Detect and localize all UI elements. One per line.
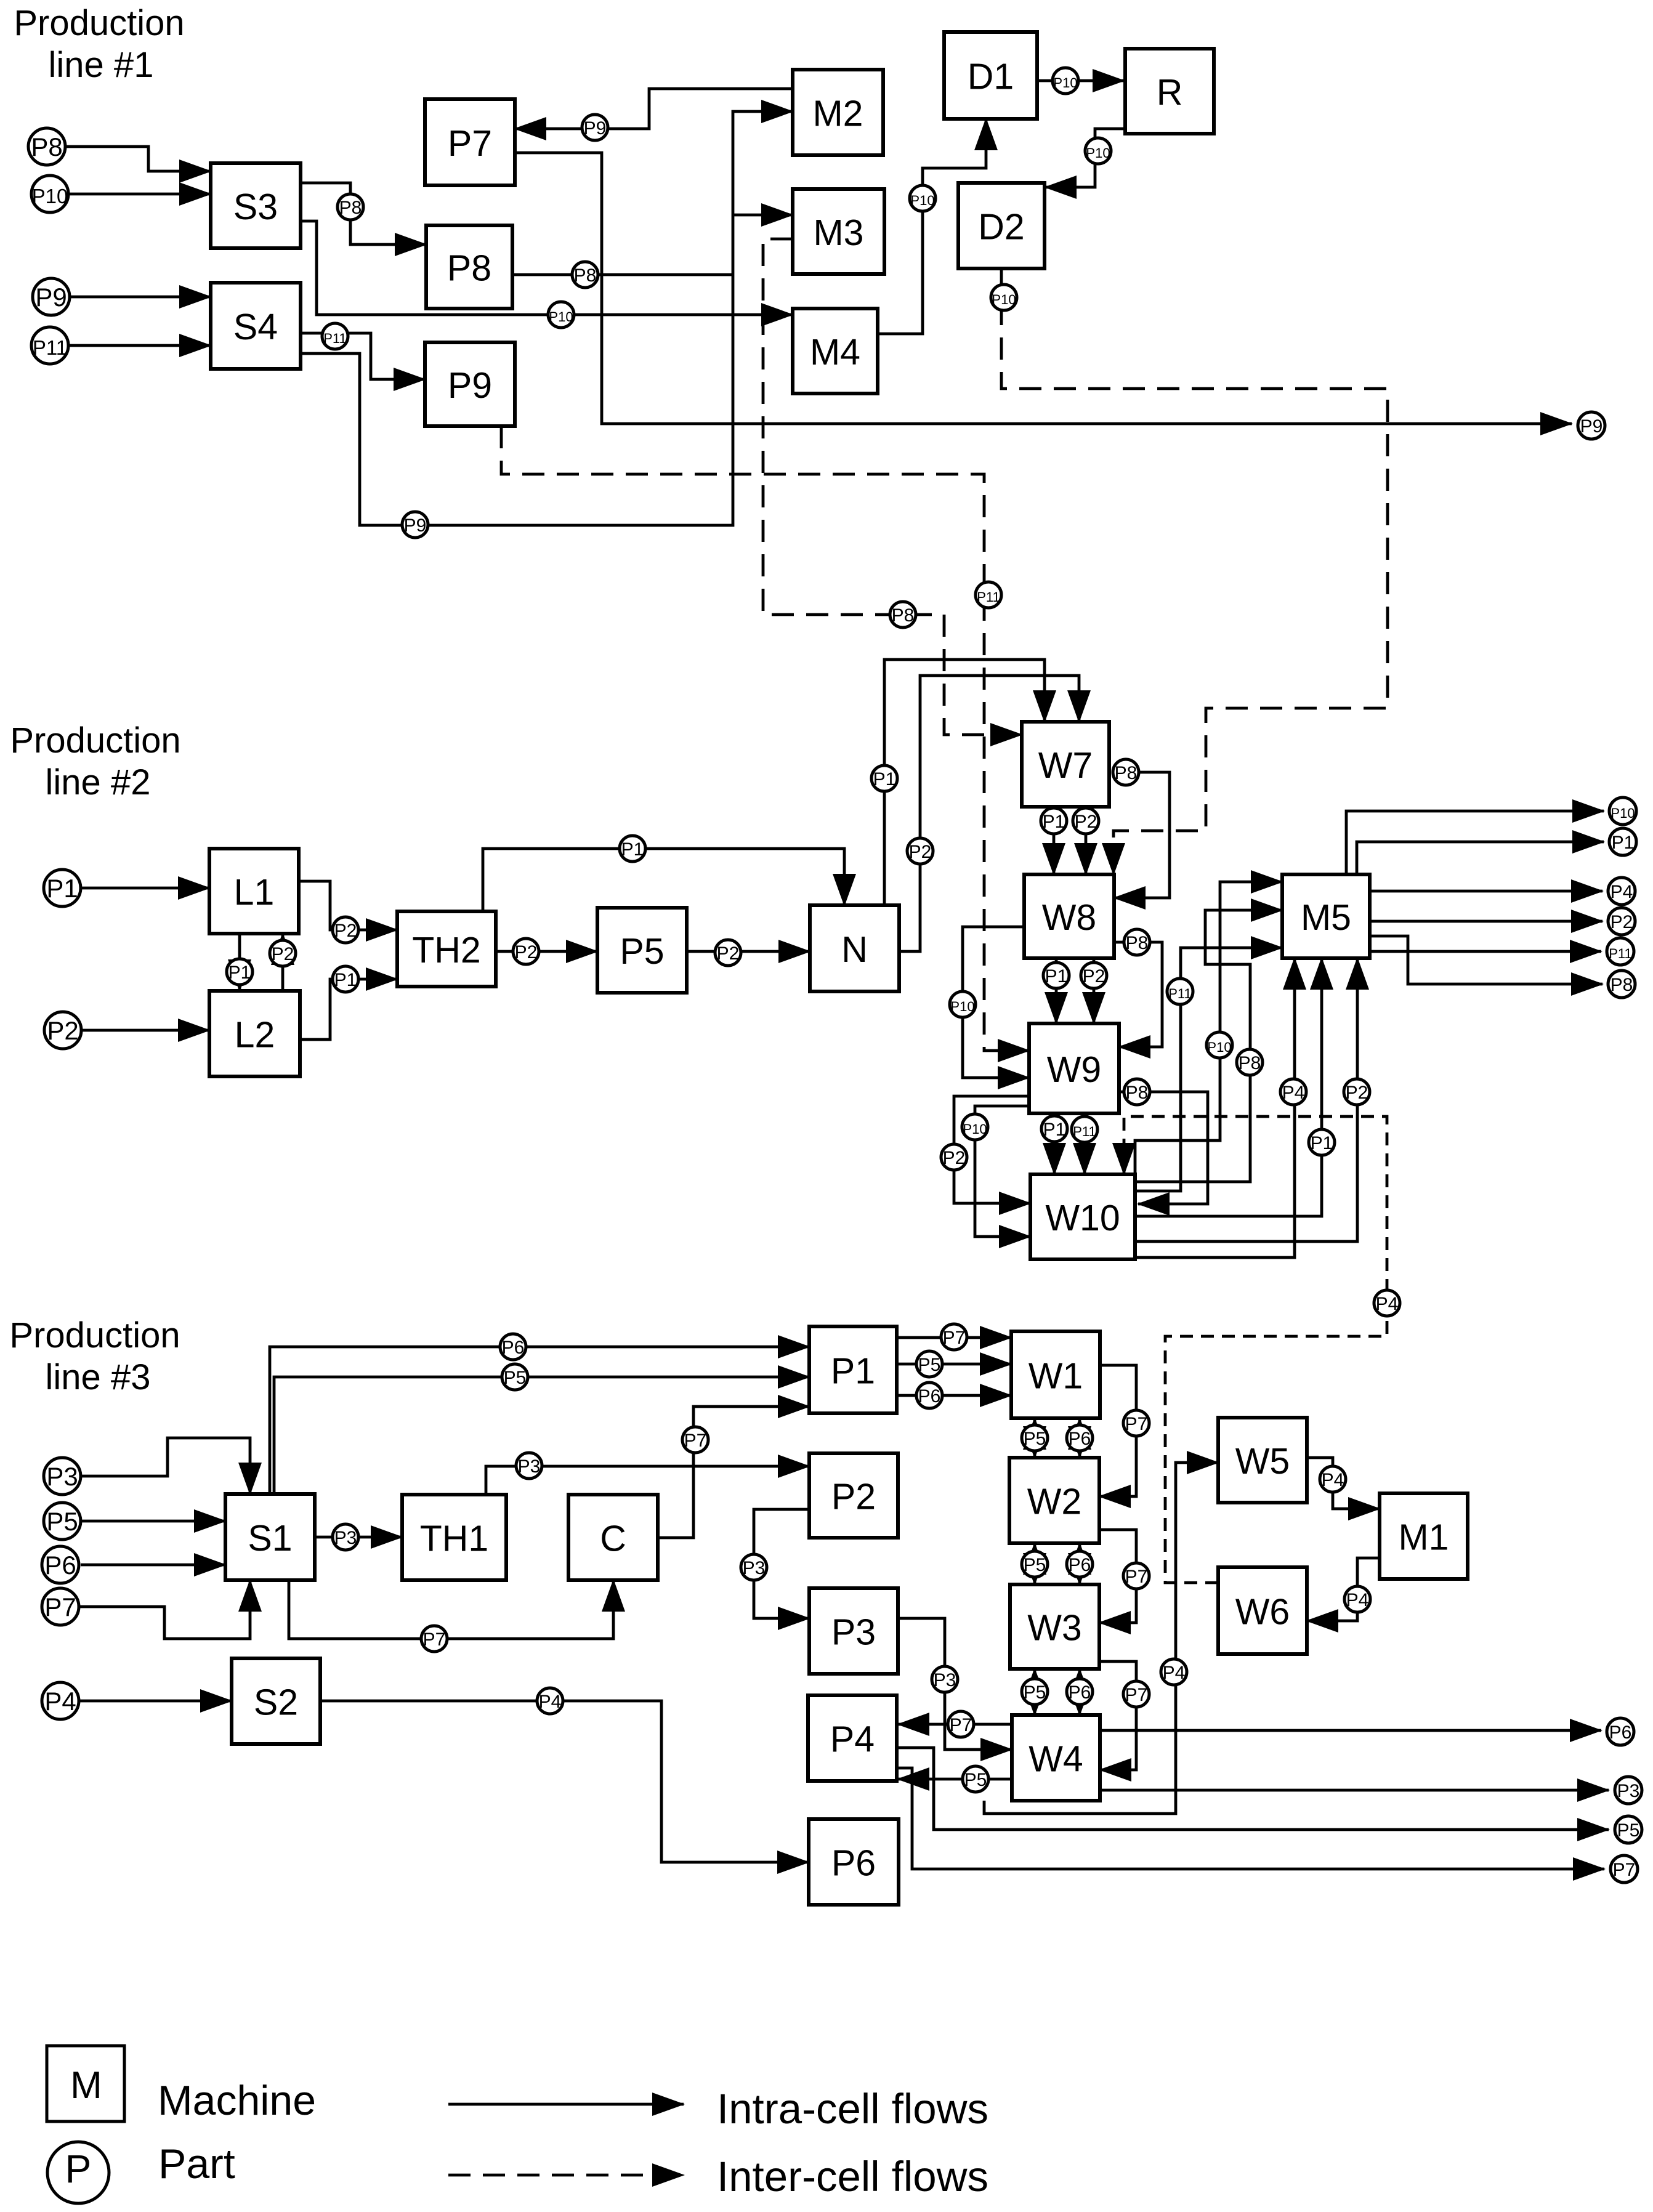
wire M1 to W6 P4 bbox=[1307, 1558, 1380, 1621]
svg-text:P4: P4 bbox=[1611, 882, 1633, 902]
wire M3 dashed to W7 P8 bbox=[763, 239, 1022, 735]
svg-text:P2: P2 bbox=[515, 942, 538, 963]
svg-text:W2: W2 bbox=[1027, 1482, 1082, 1522]
machine W3 (W3) bbox=[1010, 1584, 1099, 1669]
machine L1 (L1) bbox=[209, 849, 299, 934]
svg-text:Production: Production bbox=[9, 1315, 180, 1355]
part label P7 on wire bbox=[941, 1324, 967, 1350]
part label P4 on wire bbox=[1374, 1290, 1400, 1316]
wire W1-W2 pair P6 bbox=[1078, 1418, 1081, 1458]
wire W4 to P4 box P7 bbox=[898, 1723, 1012, 1726]
part input P1 bbox=[44, 870, 81, 906]
svg-text:P4: P4 bbox=[1322, 1470, 1344, 1490]
svg-text:P1: P1 bbox=[621, 839, 644, 860]
svg-text:W8: W8 bbox=[1042, 897, 1097, 938]
wire S1 to P1 box P5 bbox=[274, 1377, 809, 1494]
part label P7 on wire bbox=[1123, 1681, 1149, 1707]
part label P10 on wire bbox=[548, 302, 574, 328]
part input P4 bbox=[42, 1682, 79, 1719]
svg-text:P10: P10 bbox=[1611, 805, 1635, 821]
svg-text:Production: Production bbox=[14, 3, 184, 43]
wire P1 input to L1 bbox=[81, 887, 209, 890]
wire P6 input to S1 bbox=[81, 1564, 225, 1567]
machine P7 (P7box) bbox=[425, 99, 515, 185]
part label P4 on wire bbox=[1344, 1586, 1370, 1612]
svg-text:S3: S3 bbox=[233, 187, 278, 227]
part label P9 on wire bbox=[402, 512, 428, 538]
svg-text:P8: P8 bbox=[892, 605, 915, 626]
svg-text:P3: P3 bbox=[831, 1612, 876, 1653]
wire P9 input to S4 bbox=[70, 296, 211, 299]
part label P8 on wire bbox=[1113, 759, 1139, 785]
svg-text:P4: P4 bbox=[1376, 1294, 1399, 1314]
machine P3 (P3box) bbox=[809, 1588, 898, 1674]
wire P4 input to S2 bbox=[79, 1700, 232, 1703]
wire L1 to L2 P1 bbox=[238, 934, 241, 991]
wire R to D2 P10 bbox=[1045, 129, 1125, 187]
svg-text:P8: P8 bbox=[1126, 1083, 1149, 1103]
svg-text:P6: P6 bbox=[1609, 1722, 1632, 1743]
part output P3 bbox=[1615, 1777, 1642, 1804]
svg-text:P6: P6 bbox=[502, 1338, 525, 1358]
part output P1 bbox=[1609, 828, 1636, 855]
wire W4 to P6 output bbox=[1100, 1729, 1601, 1732]
wire W2-W3 pair P5 bbox=[1033, 1543, 1037, 1584]
machine L2 (L2) bbox=[209, 991, 300, 1076]
wire W10 to M5 in1 P10 bbox=[1135, 882, 1282, 1176]
part output P11 bbox=[1607, 938, 1634, 965]
svg-text:P1: P1 bbox=[1043, 1120, 1066, 1140]
machine S4 (S4) bbox=[211, 283, 301, 369]
wire W8 to W9 left loop P10 bbox=[963, 927, 1029, 1078]
svg-text:R: R bbox=[1157, 72, 1183, 113]
part label P7 on wire bbox=[682, 1427, 708, 1453]
svg-text:P6: P6 bbox=[44, 1551, 76, 1580]
wire P4 box to P5 output bbox=[897, 1748, 1609, 1830]
svg-text:P10: P10 bbox=[910, 193, 934, 208]
svg-text:P2: P2 bbox=[1346, 1083, 1368, 1103]
wire W9 to W10 P11 bbox=[1083, 1113, 1086, 1174]
part label P10 on wire bbox=[1085, 138, 1111, 164]
svg-text:P7: P7 bbox=[448, 123, 492, 164]
part label P6 on wire bbox=[1067, 1679, 1093, 1705]
wire P4 box to P7 output bbox=[897, 1768, 1604, 1869]
svg-text:P4: P4 bbox=[1163, 1663, 1186, 1683]
svg-text:P2: P2 bbox=[1083, 966, 1105, 987]
svg-text:TH2: TH2 bbox=[412, 930, 480, 971]
machine M2 (M2) bbox=[793, 70, 883, 155]
wire L2 to L1 P2 bbox=[281, 934, 285, 991]
svg-text:P2: P2 bbox=[334, 921, 357, 941]
wire P8 box junction line bbox=[512, 273, 733, 276]
machine C (C) bbox=[568, 1495, 658, 1580]
part label P7 on wire bbox=[1123, 1563, 1149, 1589]
part label P10 on wire bbox=[991, 285, 1017, 310]
svg-text:P5: P5 bbox=[1024, 1429, 1046, 1449]
part label P8 on wire bbox=[1124, 929, 1150, 955]
wire W6 dashed to W10 P4 bbox=[1124, 1116, 1387, 1583]
part label P2 on wire bbox=[1344, 1079, 1370, 1105]
wire P3 input to S1 top bbox=[81, 1438, 250, 1494]
svg-text:P1: P1 bbox=[873, 769, 896, 789]
svg-text:W9: W9 bbox=[1047, 1049, 1102, 1090]
svg-text:P8: P8 bbox=[1239, 1053, 1261, 1073]
svg-text:P11: P11 bbox=[33, 336, 67, 359]
svg-text:M1: M1 bbox=[1399, 1517, 1449, 1558]
wire W10 to M5 bottom P1 bbox=[1135, 958, 1322, 1216]
part label P3 on wire bbox=[741, 1554, 767, 1580]
svg-text:P11: P11 bbox=[323, 331, 347, 346]
part input P9 bbox=[33, 278, 70, 315]
svg-text:P8: P8 bbox=[1611, 975, 1633, 995]
svg-text:P6: P6 bbox=[1069, 1429, 1091, 1449]
wire W9 to W10 P1 bbox=[1053, 1113, 1056, 1174]
wire P1 box to W1 P7 bbox=[897, 1336, 1011, 1339]
part label P5 on wire bbox=[1022, 1679, 1048, 1705]
wire D1 to R P10 bbox=[1037, 79, 1124, 83]
svg-text:P4: P4 bbox=[1282, 1083, 1305, 1103]
part label P2 on wire bbox=[941, 1144, 967, 1170]
machine P6 (P6box) bbox=[809, 1819, 899, 1905]
part label P4 on wire bbox=[1320, 1466, 1346, 1492]
svg-text:P3: P3 bbox=[518, 1456, 541, 1477]
svg-text:P5: P5 bbox=[1617, 1820, 1640, 1841]
part input P8 bbox=[28, 128, 65, 165]
machine W9 (W9) bbox=[1029, 1023, 1119, 1113]
wire P5 input to S1 bbox=[81, 1520, 225, 1523]
wire W4 to P4 box P5 bbox=[898, 1778, 1012, 1781]
wire W8 to W9 P2 bbox=[1093, 958, 1096, 1023]
svg-text:M: M bbox=[70, 2064, 102, 2107]
svg-text:P11: P11 bbox=[1073, 1124, 1096, 1139]
svg-text:P2: P2 bbox=[1075, 812, 1097, 832]
svg-text:P1: P1 bbox=[1612, 833, 1635, 853]
svg-text:P5: P5 bbox=[620, 931, 664, 972]
machine W10 (W10) bbox=[1030, 1174, 1135, 1259]
wire N to W7 P1 bbox=[884, 660, 1045, 905]
part output P10 bbox=[1609, 797, 1636, 825]
wire P8 input to S3 bbox=[65, 147, 211, 171]
wire W9 to W10 left P10 bbox=[975, 1106, 1030, 1237]
wire W3-W4 pair P5 bbox=[1033, 1669, 1037, 1715]
machine W2 (W2) bbox=[1009, 1458, 1099, 1543]
svg-text:P4: P4 bbox=[830, 1719, 875, 1760]
part label P9 on wire bbox=[582, 115, 608, 140]
svg-text:P9: P9 bbox=[404, 515, 427, 536]
wire W10 to M5 in2 P8 bbox=[1135, 910, 1282, 1182]
part label P1 on wire bbox=[1043, 963, 1069, 988]
legend machine box M bbox=[47, 2046, 124, 2121]
svg-text:P8: P8 bbox=[1115, 763, 1138, 783]
svg-text:D1: D1 bbox=[968, 57, 1014, 97]
svg-text:P10: P10 bbox=[1053, 75, 1077, 91]
part label P8 on wire bbox=[890, 602, 916, 628]
wire M5 to P11 output bbox=[1370, 950, 1601, 953]
machine W5 (W5) bbox=[1218, 1418, 1307, 1503]
svg-text:C: C bbox=[600, 1519, 626, 1559]
part label P2 on wire bbox=[1073, 808, 1099, 834]
part label P5 on wire bbox=[502, 1364, 528, 1390]
part label P1 on wire bbox=[620, 836, 645, 862]
wire W9 to W10 right loop P8 bbox=[1119, 1092, 1208, 1204]
svg-text:P10: P10 bbox=[1086, 145, 1110, 161]
wire M5 to P8 output bbox=[1370, 936, 1602, 984]
svg-text:D2: D2 bbox=[978, 207, 1024, 248]
svg-text:line #3: line #3 bbox=[46, 1357, 151, 1397]
svg-text:TH1: TH1 bbox=[420, 1519, 488, 1559]
wire W10 to M5 in3 P11 bbox=[1135, 948, 1282, 1191]
machine D1 (D1) bbox=[944, 32, 1037, 119]
legend part circle P bbox=[47, 2142, 109, 2203]
part input P7 bbox=[42, 1588, 79, 1625]
wire W8 to W9 right loop P8 bbox=[1114, 942, 1162, 1047]
wire L2 to TH2 P1 bbox=[300, 979, 397, 1039]
part label P2 on wire bbox=[715, 940, 741, 966]
part label P10 on wire bbox=[1206, 1032, 1232, 1058]
svg-text:P10: P10 bbox=[549, 309, 573, 325]
legend intra-cell flow arrow bbox=[448, 2103, 684, 2106]
svg-text:N: N bbox=[841, 929, 868, 970]
svg-text:P2: P2 bbox=[1611, 912, 1633, 932]
svg-text:P9: P9 bbox=[35, 283, 67, 312]
svg-text:P7: P7 bbox=[44, 1592, 76, 1621]
part output P7 bbox=[1611, 1855, 1638, 1883]
part label P1 on wire bbox=[871, 765, 897, 791]
wire W10 to M5 bottom P4 bbox=[1135, 958, 1295, 1257]
svg-text:P10: P10 bbox=[963, 1121, 987, 1137]
wire W5 to M1 P4 bbox=[1307, 1458, 1380, 1509]
part label P7 on wire bbox=[421, 1626, 447, 1652]
svg-text:P: P bbox=[65, 2147, 92, 2191]
machine TH1 (TH1) bbox=[402, 1495, 506, 1580]
machine S3 (S3) bbox=[211, 163, 301, 248]
part label P6 on wire bbox=[1067, 1425, 1093, 1451]
part label P5 on wire bbox=[1022, 1425, 1048, 1451]
wire TH2 to N top P1 bbox=[483, 849, 844, 911]
svg-text:P6: P6 bbox=[831, 1843, 876, 1884]
part label P11 on wire bbox=[1072, 1116, 1097, 1142]
wire P2 box to P3 box P3 bbox=[754, 1509, 809, 1618]
part label P1 on wire bbox=[1309, 1129, 1335, 1155]
part label P7 on wire bbox=[1123, 1410, 1149, 1436]
wire TH2 to P5 P2 bbox=[496, 950, 597, 953]
wire W3-W4 pair P6 bbox=[1078, 1669, 1081, 1715]
wire W2 to W3 right loop P7 bbox=[1099, 1530, 1136, 1623]
svg-text:M5: M5 bbox=[1301, 897, 1351, 938]
wire S2 to P6 box P4 bbox=[320, 1701, 809, 1862]
part label P6 on wire bbox=[500, 1334, 526, 1360]
svg-text:Production: Production bbox=[10, 721, 180, 761]
svg-text:P5: P5 bbox=[504, 1368, 527, 1388]
part label P3 on wire bbox=[333, 1524, 358, 1550]
part output P2 bbox=[1608, 908, 1635, 935]
part label P4 on wire bbox=[1161, 1659, 1187, 1685]
svg-text:line #2: line #2 bbox=[46, 762, 151, 802]
wire W7 to W8 P2 bbox=[1085, 807, 1088, 874]
svg-text:P8: P8 bbox=[1126, 933, 1149, 953]
svg-text:P3: P3 bbox=[46, 1462, 78, 1491]
part label P8 on wire bbox=[572, 262, 598, 288]
svg-text:Machine: Machine bbox=[158, 2077, 316, 2124]
part label P2 on wire bbox=[513, 938, 539, 964]
machine W7 (W7) bbox=[1022, 722, 1109, 807]
part label P4 on wire bbox=[537, 1688, 563, 1714]
wire P3 box to W4 P3 bbox=[898, 1618, 1012, 1750]
svg-text:P1: P1 bbox=[1045, 966, 1068, 987]
part label P3 on wire bbox=[516, 1453, 542, 1479]
machine P1 (P1box) bbox=[809, 1326, 897, 1413]
wire P1 box to W1 P6 bbox=[897, 1394, 1011, 1397]
part label P10 on wire bbox=[962, 1114, 988, 1140]
part label P11 on wire bbox=[322, 323, 348, 349]
svg-text:L2: L2 bbox=[235, 1015, 275, 1056]
part output P9 bbox=[1578, 412, 1605, 439]
machine P4 (P4box) bbox=[808, 1695, 897, 1781]
part input P10 bbox=[31, 176, 68, 212]
svg-text:P6: P6 bbox=[1069, 1682, 1091, 1703]
svg-text:P1: P1 bbox=[46, 874, 78, 903]
svg-text:P8: P8 bbox=[574, 265, 597, 286]
wire S1 to P1 box P6 bbox=[270, 1347, 809, 1494]
svg-text:P3: P3 bbox=[334, 1528, 357, 1548]
wire S3 to P8 box bbox=[301, 183, 426, 244]
part label P5 on wire bbox=[1022, 1551, 1048, 1577]
part input P3 bbox=[44, 1458, 81, 1495]
svg-text:W1: W1 bbox=[1029, 1356, 1083, 1397]
svg-text:P6: P6 bbox=[918, 1386, 941, 1407]
wire P7 input to S1 bottom bbox=[79, 1580, 250, 1639]
part label P4 on wire bbox=[1280, 1079, 1306, 1105]
svg-text:P11: P11 bbox=[1609, 946, 1632, 961]
svg-text:P3: P3 bbox=[743, 1558, 766, 1578]
part label P1 on wire bbox=[333, 966, 358, 992]
svg-text:P1: P1 bbox=[1311, 1133, 1333, 1153]
svg-text:P7: P7 bbox=[1125, 1685, 1148, 1705]
part label P1 on wire bbox=[1041, 1116, 1067, 1142]
svg-text:P11: P11 bbox=[977, 589, 1000, 605]
wire W8 to W9 P1 bbox=[1055, 958, 1058, 1023]
wire M5 to P4 output bbox=[1370, 890, 1602, 893]
svg-text:P5: P5 bbox=[1024, 1555, 1046, 1575]
svg-text:W3: W3 bbox=[1027, 1608, 1082, 1649]
machine P2 (P2box) bbox=[809, 1453, 898, 1538]
svg-text:M4: M4 bbox=[810, 332, 860, 373]
machine R (R) bbox=[1125, 49, 1214, 134]
svg-text:P2: P2 bbox=[47, 1016, 78, 1045]
part label P1 on wire bbox=[1041, 808, 1067, 834]
svg-text:P10: P10 bbox=[950, 999, 974, 1014]
svg-text:W10: W10 bbox=[1045, 1198, 1120, 1238]
svg-text:W6: W6 bbox=[1235, 1592, 1290, 1633]
machine S1 (S1) bbox=[225, 1494, 315, 1580]
wire W3 to W4 right loop P7 bbox=[1099, 1661, 1136, 1770]
svg-text:P10: P10 bbox=[1207, 1039, 1231, 1055]
machine M1 (M1) bbox=[1380, 1493, 1468, 1579]
part label P3 on wire bbox=[932, 1666, 958, 1692]
wire TH1 to P2 box P3 bbox=[486, 1466, 809, 1495]
svg-text:P3: P3 bbox=[1617, 1781, 1640, 1801]
wire M5 to P10 output bbox=[1346, 811, 1604, 874]
machine W8 (W8) bbox=[1024, 874, 1114, 958]
part input P6 bbox=[42, 1546, 79, 1583]
wire N to W7 P2 bbox=[899, 676, 1079, 951]
machine P9 (P9box) bbox=[425, 342, 515, 426]
wire L1 to TH2 P2 bbox=[299, 881, 397, 930]
machine S2 (S2) bbox=[232, 1658, 320, 1744]
machine TH2 (TH2) bbox=[397, 911, 496, 987]
svg-text:P1: P1 bbox=[831, 1351, 875, 1392]
part label P5 on wire bbox=[916, 1351, 942, 1377]
wire W4 to P3 output bbox=[1100, 1789, 1609, 1792]
part label P2 on wire bbox=[907, 838, 933, 864]
svg-text:P4: P4 bbox=[539, 1692, 562, 1712]
wire P7 to P9 output bbox=[515, 153, 1572, 424]
svg-text:W5: W5 bbox=[1235, 1441, 1290, 1482]
part label P10 on wire bbox=[910, 185, 936, 211]
part label P1 on wire bbox=[227, 959, 253, 985]
svg-text:P5: P5 bbox=[1024, 1682, 1046, 1703]
wire P10 input to S3 bbox=[68, 193, 211, 196]
wire W9 to W10 left P2 bbox=[954, 1096, 1030, 1203]
svg-text:W4: W4 bbox=[1029, 1739, 1083, 1780]
svg-text:P2: P2 bbox=[831, 1477, 876, 1517]
wire P11 input to S4 bbox=[68, 344, 211, 347]
svg-text:P2: P2 bbox=[272, 944, 294, 964]
svg-text:P7: P7 bbox=[943, 1328, 966, 1348]
part output P4 bbox=[1608, 878, 1635, 905]
svg-text:P2: P2 bbox=[909, 842, 932, 862]
svg-text:P5: P5 bbox=[964, 1770, 987, 1790]
part input P2 bbox=[44, 1012, 81, 1049]
svg-text:P8: P8 bbox=[447, 248, 491, 289]
part input P11 bbox=[31, 327, 68, 364]
wire P9 box dashed to W9 P11 bbox=[501, 426, 1029, 1051]
wire S1 to C P7 bbox=[289, 1580, 613, 1639]
svg-text:P3: P3 bbox=[934, 1670, 956, 1690]
part output P5 bbox=[1615, 1816, 1642, 1843]
part label P8 on wire bbox=[1124, 1079, 1150, 1105]
wire M5 to P1 output bbox=[1357, 842, 1604, 874]
svg-text:P8: P8 bbox=[31, 132, 62, 161]
svg-text:line #1: line #1 bbox=[49, 45, 154, 85]
svg-text:S2: S2 bbox=[254, 1682, 298, 1723]
machine W4 (W4) bbox=[1012, 1715, 1100, 1801]
part label P11 on wire bbox=[1167, 979, 1193, 1004]
svg-text:P2: P2 bbox=[717, 943, 740, 964]
svg-text:M2: M2 bbox=[813, 94, 863, 134]
part label P11 on wire bbox=[976, 582, 1001, 608]
wire W4 to W5 P4 bbox=[984, 1463, 1218, 1814]
machine D2 (D2) bbox=[958, 183, 1045, 268]
wire P5 to N P2 bbox=[687, 950, 810, 953]
machine W6 (W6) bbox=[1218, 1567, 1307, 1654]
part output P8 bbox=[1608, 971, 1635, 998]
part label P7 on wire bbox=[948, 1711, 974, 1737]
svg-text:P6: P6 bbox=[1069, 1555, 1091, 1575]
svg-text:P7: P7 bbox=[1125, 1567, 1148, 1587]
machine M3 (M3) bbox=[793, 189, 884, 274]
svg-text:P11: P11 bbox=[1168, 986, 1192, 1001]
svg-text:P4: P4 bbox=[1346, 1590, 1369, 1610]
part label P2 on wire bbox=[333, 917, 358, 943]
part label P10 on wire bbox=[1053, 68, 1078, 94]
svg-text:P9: P9 bbox=[1580, 416, 1603, 437]
svg-text:S1: S1 bbox=[248, 1518, 292, 1559]
wire branch to M3 bbox=[733, 214, 793, 217]
svg-text:P7: P7 bbox=[423, 1629, 446, 1650]
wire M5 to P2 output bbox=[1370, 920, 1602, 923]
part label P10 on wire bbox=[950, 991, 976, 1017]
